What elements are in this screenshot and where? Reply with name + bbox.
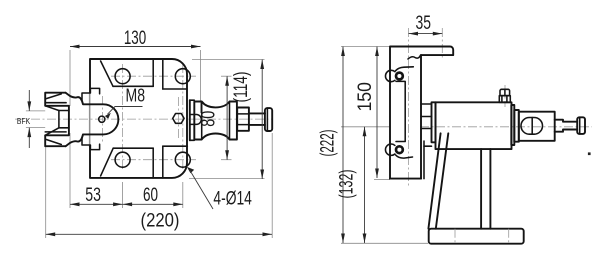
svg-text:BFK: BFK [17,117,31,126]
svg-text:M8: M8 [126,85,146,106]
svg-text:(114): (114) [231,72,252,103]
svg-text:80: 80 [198,111,219,127]
svg-text:(220): (220) [141,211,180,232]
svg-text:53: 53 [85,185,101,206]
svg-text:35: 35 [416,13,432,34]
svg-text:150: 150 [355,82,376,112]
svg-text:(132): (132) [337,170,358,199]
svg-text:(222): (222) [317,130,338,157]
svg-text:60: 60 [143,185,158,206]
svg-text:130: 130 [124,28,146,49]
svg-text:4-Ø14: 4-Ø14 [213,189,252,210]
